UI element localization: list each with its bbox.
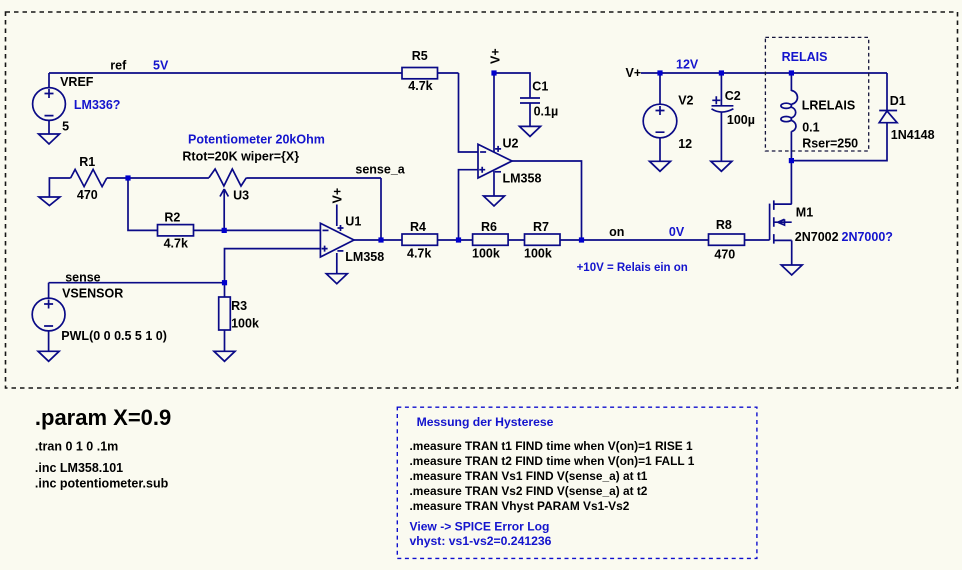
- value 1N4148: [891, 128, 935, 142]
- wire ref/5V rail: [49, 72, 402, 74]
- wire U2 V+ stub: [493, 73, 495, 152]
- svg-text:470: 470: [714, 248, 735, 262]
- wire potentiometer wiper drop: [223, 189, 225, 230]
- svg-text:0V: 0V: [669, 225, 685, 239]
- svg-text:R4: R4: [410, 220, 426, 234]
- svg-text:sense_a: sense_a: [355, 162, 405, 176]
- svg-text:100k: 100k: [524, 246, 552, 260]
- node junction LRELAIS top: [789, 70, 794, 75]
- value 470: [77, 188, 98, 202]
- directive .measure t2: [410, 454, 695, 468]
- svg-text:C1: C1: [532, 79, 548, 93]
- value LM358 U2: [503, 172, 542, 186]
- diode D1: [879, 111, 897, 123]
- svg-text:12: 12: [678, 137, 692, 151]
- node junction V+ C1 rail: [491, 70, 496, 75]
- svg-text:1N4148: 1N4148: [891, 128, 935, 142]
- node junction U1 output sense_a: [378, 237, 383, 242]
- net label on: [609, 225, 624, 239]
- svg-text:2N7000?: 2N7000?: [842, 230, 893, 244]
- label V+ C1 rail (rotated): [488, 48, 502, 64]
- wire M1 source to ground: [791, 240, 793, 265]
- wire LRELAIS bottom to M1 drain: [790, 131, 792, 204]
- svg-text:12V: 12V: [676, 58, 699, 72]
- comment View SPICE Error Log: [410, 520, 550, 534]
- voltage source VSENSOR: [32, 298, 65, 331]
- label R2: [164, 210, 180, 224]
- svg-text:.param X=0.9: .param X=0.9: [35, 405, 171, 430]
- svg-text:PWL(0 0 0.5 5 1 0): PWL(0 0 0.5 5 1 0): [61, 329, 167, 343]
- ground below U2: [484, 196, 505, 206]
- label R5: [412, 49, 428, 63]
- wire bend down to U2 inverting input: [459, 73, 479, 152]
- node junction LRELAIS bottom: [789, 158, 794, 163]
- comment Potentiometer 20kOhm: [188, 133, 325, 147]
- label VSENSOR: [62, 286, 123, 300]
- svg-text:VSENSOR: VSENSOR: [62, 286, 123, 300]
- ground below M1: [781, 265, 802, 275]
- svg-text:100k: 100k: [472, 246, 500, 260]
- svg-text:LM358: LM358: [503, 172, 542, 186]
- label LRELAIS: [802, 99, 855, 113]
- svg-text:LM358: LM358: [345, 250, 384, 264]
- wire R1 right to node: [107, 177, 128, 179]
- label U3: [233, 189, 249, 203]
- directive .measure Vs1: [410, 469, 648, 483]
- wire VREF top riser: [48, 73, 50, 88]
- capacitor C2 (polarized): [712, 96, 734, 112]
- svg-text:View -> SPICE Error Log: View -> SPICE Error Log: [410, 520, 550, 534]
- wire R7 to R8 (net on): [560, 239, 709, 241]
- label U2: [503, 137, 519, 151]
- value 100u: [727, 113, 755, 127]
- wire node to U3 left: [128, 177, 209, 179]
- comment vhyst result: [410, 534, 552, 548]
- svg-text:RELAIS: RELAIS: [782, 50, 828, 64]
- comment Messung der Hysterese: [417, 415, 554, 429]
- ground below VREF: [39, 134, 60, 144]
- transistor M1 (NMOS): [770, 200, 792, 243]
- net label 5V: [153, 58, 169, 72]
- svg-text:ref: ref: [110, 58, 127, 72]
- capacitor C1: [520, 98, 540, 103]
- value Rser=250: [802, 137, 858, 151]
- wire U3 right to sense_a bend: [246, 177, 381, 179]
- svg-text:U2: U2: [503, 137, 519, 151]
- svg-text:100µ: 100µ: [727, 113, 755, 127]
- svg-text:V+: V+: [626, 66, 642, 80]
- label V2: [678, 93, 693, 107]
- svg-text:4.7k: 4.7k: [408, 79, 432, 93]
- svg-text:.measure TRAN Vs2 FIND V(sense: .measure TRAN Vs2 FIND V(sense_a) at t2: [410, 484, 648, 498]
- wire sense line: [49, 282, 225, 284]
- node junction R7/U2 output: [579, 237, 584, 242]
- resistor R7 (box): [525, 234, 561, 245]
- svg-text:R5: R5: [412, 49, 428, 63]
- comment RELAIS: [782, 50, 828, 64]
- label R1: [79, 155, 95, 169]
- value PWL: [61, 329, 167, 343]
- value 0.1u: [534, 105, 559, 119]
- ground below U1: [326, 274, 347, 284]
- label V+ U1 (rotated): [331, 188, 345, 204]
- svg-text:R8: R8: [716, 218, 732, 232]
- svg-text:R7: R7: [533, 220, 549, 234]
- value 4.7k R5: [408, 79, 432, 93]
- wire VREF bottom to ground: [48, 120, 50, 134]
- svg-text:M1: M1: [796, 206, 813, 220]
- svg-text:4.7k: 4.7k: [164, 237, 188, 251]
- voltage source V2: [643, 104, 677, 138]
- wire 12V rail: [641, 72, 887, 74]
- value 100k R3: [231, 317, 259, 331]
- comment +10V = Relais ein on: [577, 262, 688, 274]
- wire U1 V+ stub: [336, 205, 338, 227]
- resistor R2 (box): [158, 225, 194, 236]
- directive .tran: [35, 440, 118, 454]
- Messung dashed box: [397, 407, 757, 558]
- svg-text:VREF: VREF: [60, 75, 94, 89]
- svg-text:4.7k: 4.7k: [407, 246, 431, 260]
- svg-text:vhyst: vs1-vs2=0.241236: vhyst: vs1-vs2=0.241236: [410, 534, 552, 548]
- svg-text:5: 5: [62, 119, 69, 133]
- node junction C2 top: [719, 70, 724, 75]
- wire V2 bottom to ground: [659, 138, 661, 162]
- wire R3 bottom to ground: [224, 330, 226, 351]
- label C2: [725, 89, 741, 103]
- resistor R1 (zigzag): [71, 169, 107, 186]
- wire U1 output to R4: [354, 239, 402, 241]
- svg-text:R1: R1: [79, 155, 95, 169]
- directive .inc LM358: [35, 461, 123, 475]
- svg-text:.inc LM358.101: .inc LM358.101: [35, 461, 123, 475]
- wire V2 top riser: [659, 73, 661, 104]
- op-amp U1: [320, 223, 354, 257]
- svg-text:LM336?: LM336?: [74, 98, 121, 112]
- svg-text:C2: C2: [725, 89, 741, 103]
- node junction R4/R6 feedback: [456, 237, 461, 242]
- svg-text:5V: 5V: [153, 58, 169, 72]
- value 100k R6: [472, 246, 500, 260]
- value 4.7k R4: [407, 246, 431, 260]
- resistor R8 (box): [709, 234, 745, 245]
- op-amp U2: [478, 144, 512, 178]
- svg-text:100k: 100k: [231, 317, 259, 331]
- wire D1 top riser: [886, 73, 888, 111]
- wire R5 right to bend: [438, 72, 459, 74]
- svg-text:470: 470: [77, 188, 98, 202]
- svg-text:on: on: [609, 225, 624, 239]
- wire U2 noninverting feedback drop: [459, 170, 479, 240]
- wire C2 top riser: [720, 73, 722, 106]
- value 470 R8: [714, 248, 735, 262]
- ground below V2: [650, 161, 671, 171]
- resistor R4 (box): [402, 234, 438, 245]
- svg-text:LRELAIS: LRELAIS: [802, 99, 855, 113]
- net label sense_a: [355, 162, 405, 176]
- label M1: [796, 206, 813, 220]
- wire R6 to R7: [508, 239, 525, 241]
- wire VSENSOR top riser: [48, 283, 50, 298]
- schematic outer dashed border: [6, 12, 958, 388]
- value 100k R7: [524, 246, 552, 260]
- wire R2 right to U1 inverting input: [194, 229, 321, 231]
- node junction sense/R3: [222, 280, 227, 285]
- label C1: [532, 79, 548, 93]
- label VREF: [60, 75, 94, 89]
- value 4.7k R2: [164, 237, 188, 251]
- wire R8 right to M1 gate: [745, 239, 770, 241]
- svg-text:R3: R3: [231, 299, 247, 313]
- net label V+ right: [626, 66, 642, 80]
- svg-text:.measure TRAN Vhyst PARAM Vs1-: .measure TRAN Vhyst PARAM Vs1-Vs2: [410, 499, 630, 513]
- net label sense: [65, 270, 100, 284]
- label U1: [345, 214, 361, 228]
- resistor R5 (box): [402, 68, 438, 79]
- comment LM336?: [74, 98, 121, 112]
- wire U1 noninverting input left: [225, 249, 321, 283]
- wire LRELAIS top riser: [790, 73, 792, 91]
- value 2N7002: [795, 230, 839, 244]
- directive .measure t1: [410, 439, 694, 453]
- value LM358 U1: [345, 250, 384, 264]
- resistor R3 (vertical box): [219, 297, 231, 330]
- svg-text:0.1µ: 0.1µ: [534, 105, 559, 119]
- svg-text:.measure TRAN Vs1 FIND V(sense: .measure TRAN Vs1 FIND V(sense_a) at t1: [410, 469, 648, 483]
- svg-text:Potentiometer 20kOhm: Potentiometer 20kOhm: [188, 133, 325, 147]
- wire D1 bottom to relay node: [791, 123, 887, 161]
- svg-text:0.1: 0.1: [802, 121, 819, 135]
- wire C2 bottom to ground: [720, 112, 722, 162]
- directive .inc potentiometer: [35, 477, 169, 491]
- svg-text:2N7002: 2N7002: [795, 230, 839, 244]
- label R4: [410, 220, 426, 234]
- net label ref: [110, 58, 127, 72]
- svg-text:.inc potentiometer.sub: .inc potentiometer.sub: [35, 477, 169, 491]
- ground below R3: [214, 351, 235, 361]
- net label 0V: [669, 225, 685, 239]
- node junction V2 top: [657, 70, 662, 75]
- resistor R6 (box): [473, 234, 509, 245]
- label R3: [231, 299, 247, 313]
- wire R4 to R6: [438, 239, 473, 241]
- svg-text:R6: R6: [481, 220, 497, 234]
- wire node to R3 top: [224, 283, 226, 297]
- svg-text:D1: D1: [890, 94, 906, 108]
- svg-text:.tran 0 1 0 .1m: .tran 0 1 0 .1m: [35, 440, 118, 454]
- svg-text:sense: sense: [65, 270, 100, 284]
- ground below VSENSOR: [38, 351, 59, 361]
- net label 12V: [676, 58, 699, 72]
- RELAIS dashed box: [765, 37, 868, 151]
- label R7: [533, 220, 549, 234]
- ground below C1: [520, 126, 541, 136]
- value 0.1: [802, 121, 819, 135]
- svg-text:Rtot=20K wiper={X}: Rtot=20K wiper={X}: [182, 150, 299, 164]
- wire VSENSOR bottom to ground: [48, 331, 50, 351]
- svg-text:+10V = Relais ein on: +10V = Relais ein on: [577, 262, 688, 274]
- svg-text:.measure TRAN t2 FIND time whe: .measure TRAN t2 FIND time when V(on)=1 …: [410, 454, 695, 468]
- wire node down to R2 level: [128, 178, 158, 230]
- wire U2 V- stub to ground: [493, 171, 495, 196]
- wire U2 output to bend: [512, 161, 582, 240]
- comment 2N7000?: [842, 230, 893, 244]
- label R6: [481, 220, 497, 234]
- voltage source VREF: [33, 88, 66, 121]
- svg-text:V+: V+: [488, 48, 502, 64]
- svg-text:Messung der Hysterese: Messung der Hysterese: [417, 415, 554, 429]
- label D1: [890, 94, 906, 108]
- svg-text:V+: V+: [331, 188, 345, 204]
- svg-text:V2: V2: [678, 93, 693, 107]
- svg-text:R2: R2: [164, 210, 180, 224]
- comment Rtot=20K wiper={X}: [182, 150, 299, 164]
- ground below R1: [39, 197, 60, 206]
- node junction R1/R2/U3: [125, 175, 130, 180]
- potentiometer U3 (zigzag with wiper arrow): [209, 169, 246, 197]
- directive .param (large): [35, 405, 171, 430]
- ground below C2: [711, 161, 732, 171]
- inductor LRELAIS: [781, 91, 798, 132]
- directive .measure Vhyst: [410, 499, 630, 513]
- wire sense_a drop to U1 output node: [380, 178, 382, 240]
- node junction wiper/R2: [222, 228, 227, 233]
- wire R1 left to ground riser: [49, 178, 70, 197]
- value 12: [678, 137, 692, 151]
- svg-text:Rser=250: Rser=250: [802, 137, 858, 151]
- value 5: [62, 119, 69, 133]
- svg-text:.measure TRAN t1 FIND time whe: .measure TRAN t1 FIND time when V(on)=1 …: [410, 439, 694, 453]
- label R8: [716, 218, 732, 232]
- svg-text:U1: U1: [345, 214, 361, 228]
- wire V+ node to C1: [494, 73, 530, 98]
- wire C1 bottom to ground: [529, 103, 531, 126]
- svg-text:U3: U3: [233, 189, 249, 203]
- directive .measure Vs2: [410, 484, 648, 498]
- wire U1 V- stub to ground: [336, 253, 338, 274]
